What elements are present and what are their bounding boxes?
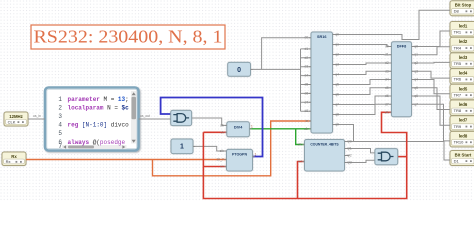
output led7 TR9 — [450, 116, 474, 132]
svg-text:d2: d2 — [385, 61, 389, 65]
wire SR16 q1 to DFF8 d0 — [333, 45, 392, 47]
svg-text:5: 5 — [58, 130, 62, 137]
svg-text:q3: q3 — [414, 69, 418, 73]
wire const 0 branch up to SR16 pin d0 — [262, 38, 311, 70]
svg-text:d5: d5 — [305, 83, 309, 87]
wire COUNTER Q2 stub — [345, 155, 350, 157]
block DIV4 — [220, 122, 253, 137]
svg-text:d7: d7 — [385, 102, 389, 106]
svg-text:d5: d5 — [385, 86, 389, 90]
svg-text:q1: q1 — [335, 43, 339, 47]
svg-text:d0: d0 — [305, 36, 309, 40]
output led5 TR7 — [450, 84, 474, 100]
block PTOGPN — [216, 149, 256, 171]
wire navy PTOGPN out to AND gate U1 — [161, 98, 263, 157]
svg-text:clk: clk — [385, 110, 389, 114]
wire SR16 q2 to DFF8 d1 — [333, 54, 392, 56]
svg-text:q6: q6 — [335, 93, 339, 97]
wire DFF8 q7 to led8 — [412, 104, 451, 141]
svg-text:PTOGPN: PTOGPN — [232, 152, 248, 156]
wire red riser to COUNTER — [298, 162, 305, 199]
output led4 TR6 — [450, 69, 474, 85]
svg-text:Q1: Q1 — [347, 147, 352, 151]
svg-text:d2: d2 — [305, 56, 309, 60]
svg-text:TR6: TR6 — [454, 77, 462, 82]
svg-text:d4: d4 — [385, 78, 389, 82]
svg-text:DIV4: DIV4 — [234, 125, 243, 129]
output led2 TR4 — [450, 37, 474, 53]
wire SR16 left pin ladder — [301, 49, 312, 111]
svg-text:reg [N-1:0] divco: reg [N-1:0] divco — [68, 122, 130, 129]
svg-text:TR9: TR9 — [454, 124, 462, 129]
svg-text:q7: q7 — [414, 102, 418, 106]
AND gate U2 — [375, 149, 398, 165]
svg-text:D8: D8 — [454, 9, 460, 14]
svg-text:q4: q4 — [414, 78, 418, 82]
svg-text:3: 3 — [58, 113, 62, 120]
verilog code block — [45, 88, 139, 151]
wire SR16 q0 to Bit Stop — [333, 10, 451, 39]
block DFF8 — [385, 42, 418, 117]
svg-text:d6: d6 — [385, 94, 389, 98]
output led1 TR1 — [450, 22, 474, 38]
wire const 0 to SR16 ladder feed — [251, 68, 301, 70]
svg-text:q0: q0 — [335, 33, 339, 37]
wire DFF8 q2 to led3 — [412, 61, 451, 64]
svg-text:d8: d8 — [305, 109, 309, 113]
svg-text:q5: q5 — [414, 86, 418, 90]
wire SR16 q8 to DFF8 d7 — [333, 104, 392, 114]
svg-text:D1: D1 — [454, 158, 460, 163]
svg-text:rst: rst — [298, 160, 302, 164]
svg-text:led7: led7 — [459, 118, 468, 123]
constant 0 — [228, 62, 253, 76]
svg-text:TR4: TR4 — [454, 45, 462, 50]
wire COUNTER Q3 to AND gate U2 input b — [345, 160, 375, 162]
svg-text:d7: d7 — [305, 100, 309, 104]
svg-text:led1: led1 — [459, 24, 468, 29]
svg-text:led5: led5 — [459, 86, 468, 91]
svg-text:Rx: Rx — [11, 154, 17, 159]
svg-text:q2: q2 — [335, 53, 339, 57]
wire DFF8 q6 to led7 — [412, 96, 451, 125]
svg-text:7: 7 — [58, 143, 62, 150]
svg-text:led6: led6 — [459, 102, 468, 107]
svg-text:TR1: TR1 — [454, 30, 462, 35]
svg-text:d4: d4 — [305, 74, 309, 78]
input 12MHz CLK — [4, 112, 28, 126]
svg-text:d1: d1 — [385, 53, 389, 57]
title box RS232 — [31, 25, 225, 49]
svg-text:led3: led3 — [459, 55, 468, 60]
wire Rx net orange to PTOGPN — [26, 159, 227, 161]
output led3 TR5 — [450, 53, 474, 69]
svg-text:d0: d0 — [385, 45, 389, 49]
svg-text:clk: clk — [298, 143, 302, 147]
svg-text:en: en — [220, 165, 224, 169]
svg-text:COUNTER_4BITS: COUNTER_4BITS — [310, 142, 339, 146]
block COUNTER_4BITS — [298, 140, 352, 172]
svg-text:parameter M = 13;: parameter M = 13; — [68, 96, 129, 103]
wire DFF8 q4 to led5 — [412, 80, 451, 94]
svg-text:1: 1 — [180, 144, 184, 151]
svg-text:Q0: Q0 — [347, 140, 352, 144]
block SR16 — [304, 32, 339, 133]
svg-text:q4: q4 — [335, 73, 339, 77]
svg-text:us_out: us_out — [140, 114, 150, 118]
wire DFF8 q3 to led4 — [412, 71, 451, 78]
wire SR16 q4 to DFF8 d3 — [333, 71, 392, 74]
wire DFF8 q1 to led2 — [412, 47, 451, 55]
svg-text:d3: d3 — [385, 69, 389, 73]
svg-text:1: 1 — [58, 96, 62, 103]
wire SR16 q3 to DFF8 d2 — [333, 63, 392, 65]
input Rx — [2, 152, 26, 166]
wire DFF8 q0 to led1 — [412, 31, 451, 47]
svg-text:q1: q1 — [414, 53, 418, 57]
wire clk from CLK to code block — [28, 118, 45, 120]
wire SR16 q6 to DFF8 d5 — [333, 88, 392, 95]
svg-text:q2: q2 — [414, 61, 418, 65]
svg-text:4: 4 — [58, 122, 62, 129]
svg-text:Bit Start: Bit Start — [455, 153, 472, 158]
output led8 TR10 — [450, 131, 474, 147]
svg-text:d1: d1 — [305, 47, 309, 51]
wire Rx net orange branch to SR16 — [153, 121, 312, 176]
AND gate U1 — [171, 110, 192, 125]
constant 1 — [171, 139, 195, 154]
svg-text:led4: led4 — [459, 71, 468, 76]
wire red stub to PTOGPN — [203, 166, 226, 168]
wire red U2 output stub — [398, 156, 407, 158]
svg-text:TR7: TR7 — [454, 92, 462, 97]
svg-text:q8: q8 — [335, 113, 339, 117]
svg-text:1: 1 — [251, 124, 253, 128]
svg-text:0: 0 — [237, 67, 241, 74]
svg-text:12MHz: 12MHz — [9, 114, 23, 119]
svg-text:TR8: TR8 — [454, 108, 462, 113]
svg-text:clk: clk — [220, 149, 224, 153]
svg-text:Bit Stop: Bit Stop — [455, 3, 472, 8]
svg-text:q7: q7 — [335, 103, 339, 107]
svg-text:CLK: CLK — [8, 119, 16, 124]
svg-text:q0: q0 — [414, 45, 418, 49]
svg-text:DFF8: DFF8 — [397, 45, 407, 49]
wire const 1 to PTOGPN — [193, 146, 227, 151]
svg-text:q6: q6 — [414, 94, 418, 98]
svg-text:Rx: Rx — [6, 159, 11, 164]
wire COUNTER Q1 to AND gate U2 input a — [345, 149, 375, 153]
svg-text:TR10: TR10 — [454, 139, 465, 144]
svg-text:1: 1 — [255, 153, 257, 157]
svg-text:q5: q5 — [335, 83, 339, 87]
output Bit Start D1 — [450, 151, 474, 166]
svg-text:SR16: SR16 — [317, 35, 327, 39]
svg-text:RS232: 230400, N, 8, 1: RS232: 230400, N, 8, 1 — [34, 27, 223, 47]
svg-text:10_7: 10_7 — [216, 158, 224, 162]
svg-text:clk: clk — [304, 127, 308, 131]
wire DFF8 q5 to led6 — [412, 88, 451, 110]
svg-text:always @(posedge: always @(posedge — [68, 139, 126, 146]
svg-text:us_in: us_in — [33, 114, 41, 118]
svg-text:d6: d6 — [305, 91, 309, 95]
output Bit Stop D8 — [450, 1, 474, 16]
output led6 TR8 — [450, 100, 474, 116]
wire SR16 q7 to DFF8 d6 — [333, 96, 392, 105]
wire red stub to DIV4 reset — [203, 131, 226, 133]
svg-text:q3: q3 — [335, 63, 339, 67]
svg-text:d3: d3 — [305, 65, 309, 69]
svg-text:clk: clk — [220, 123, 224, 127]
wire red net main loop — [203, 112, 406, 198]
wire SR16 q9 down to Bit Start net — [333, 125, 354, 142]
svg-text:2: 2 — [58, 104, 62, 111]
svg-text:TR5: TR5 — [454, 61, 462, 66]
wire clk from code block to AND gate U1 — [139, 118, 171, 120]
wire U1 output to DIV4 clk — [192, 118, 227, 125]
svg-text:localparam N = $c: localparam N = $c — [68, 104, 130, 111]
svg-text:Q2: Q2 — [347, 154, 352, 158]
net label clk_out — [140, 114, 150, 118]
wire COUNTER Q0 to Bit Start — [345, 142, 451, 161]
net label clk_in — [33, 114, 41, 118]
wire green DIV4 out to SR16 clk — [249, 128, 311, 130]
svg-text:in: in — [306, 119, 309, 123]
wire SR16 q5 to DFF8 d4 — [333, 80, 392, 85]
svg-text:led8: led8 — [459, 133, 468, 138]
svg-text:Q3: Q3 — [347, 161, 352, 165]
svg-text:led2: led2 — [459, 39, 468, 44]
wire green branch to COUNTER clk — [296, 129, 305, 145]
svg-text:q9: q9 — [335, 123, 339, 127]
